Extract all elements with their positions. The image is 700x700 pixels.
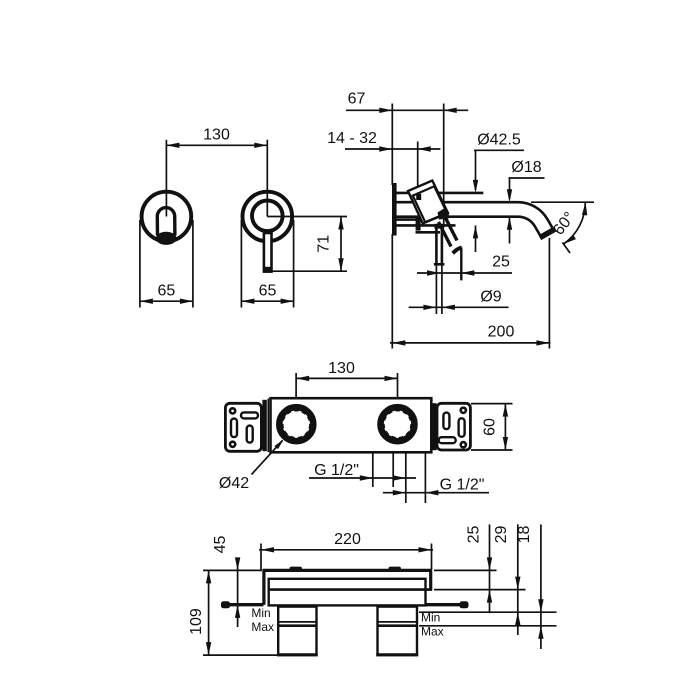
tilted cartridge housing inner [413,186,447,222]
right plate horizontal slot [439,437,456,443]
body left double edge [267,399,269,453]
dim 65 right line [241,300,293,302]
left port circle [279,407,313,441]
60deg arrow bottom [562,235,576,247]
dia42 leader arrow [274,438,285,449]
body left outer edge [262,570,265,604]
Max line right [419,625,557,627]
ext 65 left a [139,220,141,308]
cartridge joint knot [438,209,450,220]
dim 45 arrows [235,557,240,570]
ext internal line right [434,589,526,591]
FIGURE 1: front views of trim (escutcheon + handle) [140,127,347,308]
dim 29 arrows [515,577,520,590]
ext line right centerline [266,140,268,217]
left plate screw hole top [230,408,235,413]
dim 25 line [489,524,491,613]
FIGURE 3: concealed in-wall body, front view [219,360,513,503]
ext 65 right a [240,220,242,308]
dim 200 arrows [392,340,405,345]
svg-text:Min: Min [251,606,270,620]
riser box right bottom [376,653,418,656]
dia18 arrow up [507,217,512,230]
dim 109 line [208,570,210,655]
svg-text:14 - 32: 14 - 32 [327,130,377,147]
dim 109 arrows [206,570,211,583]
lever diagonal a [445,216,458,241]
60deg arc [564,202,586,244]
left plate horizontal slot [241,412,258,418]
dim 130 arrows [296,376,309,381]
dim 29 line [517,524,519,635]
dim 25 arrows [487,557,492,570]
svg-text:Min: Min [421,611,440,625]
dim 71 line [340,217,342,272]
G12 ext line d [424,453,426,504]
dim 25 line [417,272,512,274]
ext 109 bottom line [203,654,277,656]
item callout 1 flag [453,248,462,254]
dim 45 line [237,559,239,628]
dia18 arrow down [507,189,512,202]
hatch block upper [416,194,421,200]
dim 18 arrows [538,599,543,612]
left mounting plate [225,403,261,451]
ext 220 right [431,544,433,571]
riser box left bottom [277,653,318,656]
handle lever [264,233,272,272]
wall mounting bar [392,183,397,236]
riser box right [378,607,418,655]
ext wall face lower continuation [391,234,393,349]
dim G12 left arrows [360,475,373,480]
right stub cap [460,601,469,608]
ext 71 bottom from lever tip [272,270,347,272]
trim ring inner [252,201,283,232]
riser box right max line [378,624,418,627]
G12 ext line c [405,453,407,504]
right supply stub [426,603,463,606]
dim 220 arrows [261,547,274,552]
riser box left min line [278,621,316,623]
fixing screw tip left [290,567,303,571]
svg-text:200: 200 [488,324,515,341]
svg-text:109: 109 [188,608,205,635]
supply pipe left wall [435,226,438,265]
svg-text:65: 65 [158,283,176,300]
dim 14-32 arrows [379,146,392,151]
ext 220 left [260,544,262,571]
dim 67 line [346,109,468,111]
ext 65 left b [192,220,194,308]
dim G12 right line [383,492,489,494]
body internal line [269,588,432,591]
lever diagonal b [439,222,452,247]
ext 45/109 top line [203,569,262,571]
ext 60 bottom line [471,449,513,451]
left stub cap [221,601,230,608]
dim 65 left arrows [140,299,153,304]
dia18 leader horizontal [509,177,545,179]
left plate screw hole bottom [230,442,235,447]
keyhole opening [157,208,175,236]
ext 67 right line [443,104,445,228]
body rectangle [271,398,432,452]
60deg arc tail [563,243,571,254]
svg-text:25: 25 [466,526,483,544]
dim 60 line [504,404,506,450]
dia42.5 leader vertical [475,150,477,190]
svg-text:45: 45 [212,536,229,554]
svg-text:Ø42.5: Ø42.5 [477,132,521,149]
svg-text:65: 65 [259,283,277,300]
svg-text:Ø18: Ø18 [511,159,541,176]
60deg arrow top [582,202,588,215]
dim 67 arrows [379,108,392,113]
handle lever end cap [263,267,272,273]
spout top line [396,201,518,204]
right plate vertical slot a [443,413,449,430]
ext 14-32 right line [417,142,419,194]
dim dia9 arrows [423,305,436,310]
svg-text:G 1/2": G 1/2" [440,477,485,494]
spout outer curve [518,202,554,230]
supply pipe top block [434,224,444,229]
keyhole filled bottom [156,232,177,245]
dim dia9 line [409,306,509,308]
ext line left centerline [165,140,167,217]
spout tip aerator [540,229,555,238]
right port circle [381,407,415,441]
top plate edge [263,569,433,572]
dim 200 line [390,342,551,344]
left clamp bar [262,400,266,451]
escutcheon circle left [142,192,192,242]
dim 14-32 line [345,148,440,150]
body right outer edge [429,570,432,590]
dia42.5 lower line [475,225,477,252]
hatch block lower [416,217,421,231]
right plate screw hole bottom [461,442,466,447]
svg-text:29: 29 [493,526,510,544]
dia42.5 arrow up [473,225,478,238]
riser box right min line [378,621,418,623]
dim 60 arrows [503,404,508,417]
riser box left max line [278,624,316,627]
left plate vertical slot b [247,426,253,443]
ext 60 top line [471,403,513,405]
dim 130 line [166,144,267,146]
dim 130 line [296,377,397,379]
body inner box [269,579,426,606]
dia18 leader vertical [509,178,511,199]
dia18 lower line [509,217,511,244]
dim 220 line [259,549,433,551]
svg-text:67: 67 [348,91,366,108]
ext top plate right [434,569,497,571]
60deg reference line [531,201,594,203]
dim G12 left line [309,477,416,479]
FIGURE 2: side view of wall-mounted spout [327,91,594,349]
supply pipe bottom cap [434,263,445,266]
ext wall face line [391,104,393,186]
svg-text:Max: Max [251,620,274,634]
dia42 leader [252,441,283,475]
right plate vertical slot b [459,418,465,437]
FIGURE 4: installation section, top view [188,524,557,655]
fixing screw tip right [389,567,402,571]
dim 25 arrows [427,270,440,275]
item callout 1 stem [460,248,462,281]
dim 71 arrows [338,217,343,230]
left port thread [282,410,310,438]
ext 71 top from handle centre [267,216,347,218]
spout bottom line [396,215,509,218]
svg-text:220: 220 [334,531,361,548]
right plate screw hole top [461,408,466,413]
dim 130 arrow right [254,143,267,148]
svg-text:25: 25 [492,254,510,271]
escutcheon top edge [396,192,483,195]
flange short line [396,218,417,221]
svg-text:Max: Max [421,625,444,639]
svg-text:Ø42: Ø42 [219,475,249,492]
svg-text:60: 60 [482,418,499,436]
ext lines port centres [295,373,297,404]
dim 130 arrow left [166,143,179,148]
svg-text:18: 18 [516,526,533,544]
left plate vertical slot a [231,419,237,438]
trim ring outer right [242,192,292,242]
riser box left [278,607,316,655]
dim G12 right arrows [393,490,406,495]
ext 200 right from spout tip [548,238,550,349]
right clamp bar [432,403,437,450]
pipe ext lines to dia9 [435,265,437,314]
right port thread [384,410,412,438]
elbow top line [416,231,441,234]
right mounting plate [437,403,470,450]
supply pipe right wall [441,226,444,265]
spout inner curve [509,217,541,237]
svg-text:Ø9: Ø9 [480,289,501,306]
Min line right [419,611,557,613]
svg-text:130: 130 [328,360,355,377]
escutcheon bottom edge [396,224,456,227]
G12 ext line a [372,453,374,488]
dia42.5 leader horizontal [474,149,524,151]
G12 ext line b [392,453,394,488]
svg-text:G 1/2": G 1/2" [314,462,359,479]
dim 18 line [540,524,542,649]
dim 65 right arrows [241,299,254,304]
svg-text:71: 71 [316,235,333,253]
ext 65 right b [293,220,295,308]
svg-text:130: 130 [203,127,230,144]
dia42.5 arrow down [473,180,478,193]
left supply stub [223,603,264,606]
dim 65 left line [140,300,193,302]
tilted cartridge housing outer [408,181,448,224]
